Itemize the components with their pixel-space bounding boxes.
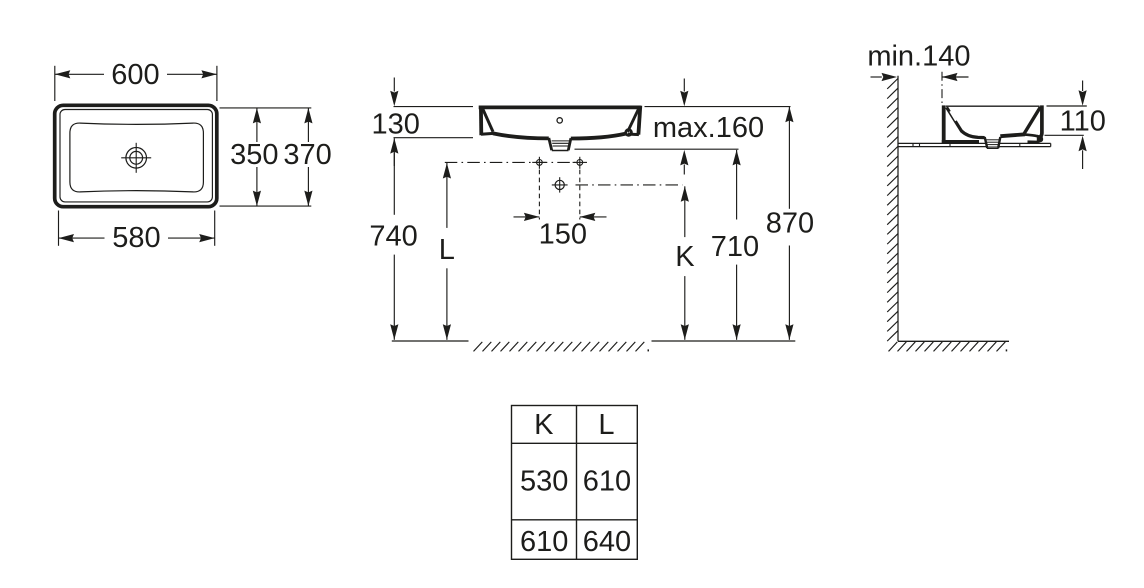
front view: drain trap bbox=[549, 138, 571, 151]
svg-text:L: L bbox=[598, 409, 614, 441]
svg-text:150: 150 bbox=[539, 219, 587, 251]
dim max.160 arrows bbox=[680, 79, 688, 175]
dim 580 line and arrows bbox=[59, 234, 215, 242]
dim L line and arrows bbox=[443, 163, 451, 340]
centerline: basin front edge (dash-dot) bbox=[941, 72, 943, 104]
svg-text:110: 110 bbox=[1060, 105, 1106, 137]
svg-text:870: 870 bbox=[766, 207, 814, 239]
dim 350/370 extension lines bbox=[220, 108, 312, 206]
side view: right outer wall bbox=[1039, 105, 1042, 137]
dim 350 line and arrows bbox=[253, 108, 261, 206]
side view: drain pipe bbox=[985, 137, 1001, 148]
supply point right crosshair bbox=[573, 157, 587, 169]
dim 370 line and arrows bbox=[304, 108, 312, 206]
drain point crosshair bbox=[552, 177, 568, 192]
side view: left inner wall bbox=[947, 107, 962, 131]
K/L table grid bbox=[512, 406, 638, 560]
dim 580 extension lines bbox=[59, 211, 215, 246]
svg-text:710: 710 bbox=[711, 231, 759, 263]
front view: right wall bbox=[628, 106, 641, 135]
side view: rim top line bbox=[946, 105, 1040, 107]
ext line: basin underside to 130 dim bbox=[394, 137, 474, 139]
side view: bowl bottom right bbox=[1000, 134, 1025, 136]
svg-text:K: K bbox=[534, 409, 554, 441]
top view: outer rim bbox=[55, 105, 217, 206]
supply point left crosshair bbox=[532, 157, 546, 169]
side view: right wall bottom mass bbox=[1037, 135, 1043, 143]
svg-text:640: 640 bbox=[583, 526, 631, 558]
svg-text:max.160: max.160 bbox=[653, 112, 764, 144]
front view: right wall curl bbox=[626, 130, 632, 136]
supply dashed drop lines bbox=[539, 170, 579, 220]
front view: overflow hole bbox=[557, 118, 562, 123]
dim 740 line and arrows bbox=[390, 138, 398, 340]
svg-text:740: 740 bbox=[369, 220, 417, 252]
side view: right lower band with hook bbox=[1025, 135, 1040, 142]
wall line bbox=[897, 76, 899, 342]
ext line: basin wall bottom to 110 dim bbox=[1045, 134, 1084, 136]
centerline: drain (dash-dot) bbox=[576, 184, 683, 186]
centerline: faucet supplies (dash-dot) bbox=[445, 161, 580, 163]
svg-text:610: 610 bbox=[583, 466, 631, 498]
dim K line and arrows bbox=[681, 186, 689, 339]
side view: bowl bottom left bbox=[961, 131, 984, 138]
ext line: drain bottom to 710 dim bbox=[575, 148, 739, 150]
dim 870 line and arrows bbox=[785, 107, 793, 340]
svg-text:130: 130 bbox=[372, 108, 420, 140]
dim 150 line and arrows bbox=[514, 213, 607, 221]
dim 130 arrows bbox=[390, 78, 398, 167]
front view: left wall bbox=[481, 106, 494, 136]
svg-text:L: L bbox=[439, 234, 455, 266]
floor line (front view) bbox=[392, 340, 796, 342]
dim 600 line and arrows bbox=[55, 70, 217, 78]
floor hatching (side view) bbox=[889, 342, 1008, 352]
svg-text:min.140: min.140 bbox=[867, 41, 970, 73]
counter top slab bbox=[898, 143, 1051, 146]
ext line: basin top to 130 dim bbox=[394, 106, 474, 108]
side view: left inner wall highlight bbox=[950, 111, 956, 121]
dim min.140 line and arrows bbox=[871, 73, 969, 81]
side view: base plate bbox=[942, 140, 979, 144]
svg-text:350: 350 bbox=[230, 139, 278, 171]
top view: drain crosshair bbox=[121, 143, 151, 173]
top view: inner rim edge bbox=[60, 110, 212, 202]
svg-text:600: 600 bbox=[111, 59, 159, 91]
front view: basin rim top bar bbox=[479, 106, 641, 110]
svg-text:370: 370 bbox=[283, 139, 331, 171]
floor hatching (front view) bbox=[474, 342, 650, 352]
top view: bowl outline bbox=[70, 123, 204, 192]
floor line (side view) bbox=[898, 340, 1009, 342]
svg-text:530: 530 bbox=[520, 466, 568, 498]
side view: right inner wall bbox=[1024, 107, 1040, 133]
dim 710 line and arrows bbox=[733, 150, 741, 340]
wall hatching bbox=[887, 79, 898, 342]
dim 110 arrows bbox=[1079, 81, 1087, 170]
front view: bowl bottom bbox=[493, 133, 549, 138]
ext line: basin top to 110 dim bbox=[1047, 105, 1087, 107]
side view: left outer wall bbox=[942, 105, 946, 143]
svg-text:610: 610 bbox=[520, 526, 568, 558]
svg-text:K: K bbox=[675, 241, 695, 273]
svg-text:580: 580 bbox=[112, 222, 160, 254]
dim 600 extension lines bbox=[55, 66, 217, 101]
ext line: basin top to 870 dim bbox=[645, 106, 791, 108]
